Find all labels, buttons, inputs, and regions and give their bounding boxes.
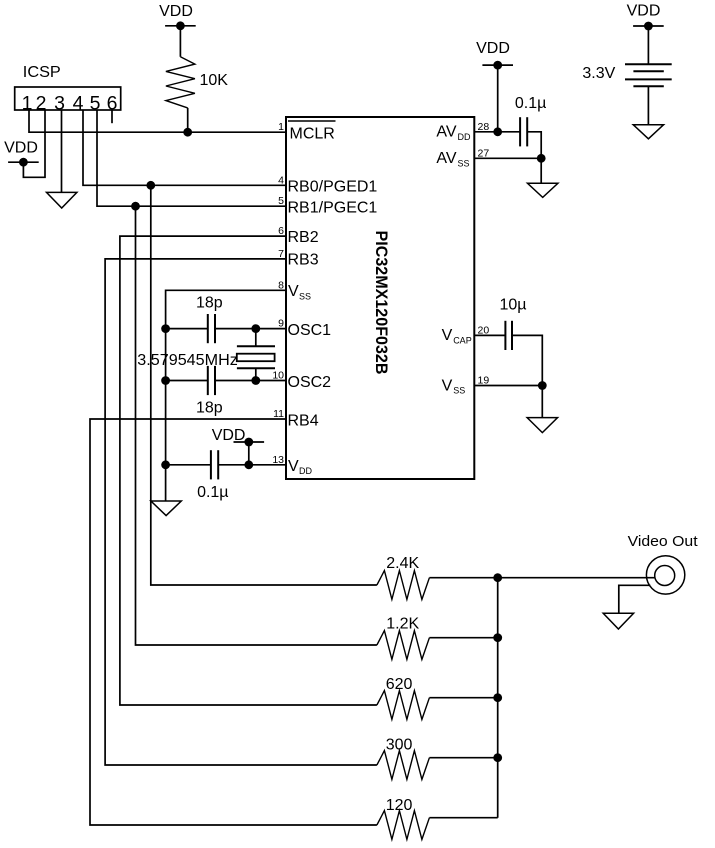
svg-text:VDD: VDD <box>627 2 661 19</box>
svg-text:3: 3 <box>54 93 65 115</box>
svg-text:CAP: CAP <box>453 336 472 346</box>
svg-text:VDD: VDD <box>159 3 193 20</box>
svg-text:5: 5 <box>90 93 101 115</box>
svg-text:OSC1: OSC1 <box>288 322 332 339</box>
svg-text:DD: DD <box>458 132 471 142</box>
svg-text:2.4K: 2.4K <box>386 555 419 572</box>
svg-text:4: 4 <box>73 93 84 115</box>
svg-text:1.2K: 1.2K <box>386 616 419 633</box>
svg-text:SS: SS <box>458 159 470 169</box>
svg-text:PIC32MX120F032B: PIC32MX120F032B <box>372 231 391 375</box>
svg-text:120: 120 <box>386 797 413 814</box>
svg-text:V: V <box>288 283 299 300</box>
svg-text:3.3V: 3.3V <box>582 65 615 82</box>
svg-text:RB0/PGED1: RB0/PGED1 <box>288 179 378 196</box>
svg-text:RB1/PGEC1: RB1/PGEC1 <box>288 200 378 217</box>
svg-text:18p: 18p <box>196 295 223 312</box>
svg-text:OSC2: OSC2 <box>288 374 332 391</box>
svg-text:MCLR: MCLR <box>290 126 335 143</box>
svg-text:620: 620 <box>386 676 413 693</box>
svg-text:1: 1 <box>278 121 284 133</box>
svg-text:300: 300 <box>386 736 413 753</box>
svg-text:AV: AV <box>436 150 456 167</box>
svg-text:V: V <box>442 327 453 344</box>
svg-text:0.1µ: 0.1µ <box>197 484 228 501</box>
svg-text:0.1µ: 0.1µ <box>515 95 546 112</box>
svg-text:18p: 18p <box>196 399 223 416</box>
svg-text:4: 4 <box>278 174 284 186</box>
svg-text:ICSP: ICSP <box>23 64 61 81</box>
svg-text:Video Out: Video Out <box>628 533 699 550</box>
svg-text:AV: AV <box>436 124 456 141</box>
svg-text:DD: DD <box>299 466 312 476</box>
svg-text:RB3: RB3 <box>288 251 319 268</box>
svg-text:5: 5 <box>278 195 284 207</box>
svg-text:RB2: RB2 <box>288 229 319 246</box>
svg-text:1: 1 <box>22 93 33 115</box>
svg-text:10K: 10K <box>200 72 229 89</box>
svg-text:VDD: VDD <box>4 140 38 157</box>
svg-text:SS: SS <box>453 386 465 396</box>
svg-text:3.579545MHz: 3.579545MHz <box>137 352 238 369</box>
svg-text:V: V <box>288 458 299 475</box>
svg-text:RB4: RB4 <box>288 412 319 429</box>
svg-text:10µ: 10µ <box>499 296 526 313</box>
svg-text:V: V <box>442 377 453 394</box>
svg-text:SS: SS <box>299 291 311 301</box>
svg-text:VDD: VDD <box>476 40 510 57</box>
